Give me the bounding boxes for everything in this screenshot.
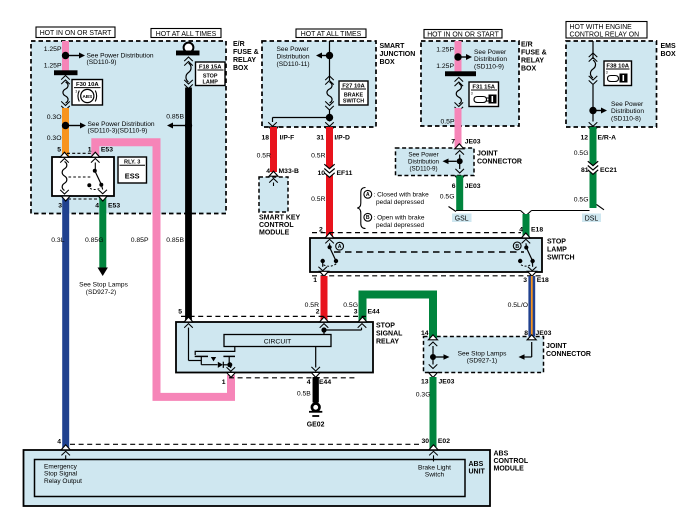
SJB internal feed line <box>329 41 331 80</box>
arrow to see power distribution (SD110-3)(SD110-9) <box>69 123 87 129</box>
svg-text:JOINT: JOINT <box>546 343 567 350</box>
connector M33-B pin 4 <box>266 168 299 176</box>
connector E53 pin 1 <box>88 147 100 158</box>
svg-text:MODULE: MODULE <box>494 466 525 473</box>
arrow left to see power distribution <box>167 123 186 129</box>
svg-text:Emergency: Emergency <box>44 463 78 470</box>
svg-text:LAMP: LAMP <box>547 247 567 254</box>
svg-text:3: 3 <box>354 309 358 316</box>
svg-text:EC21: EC21 <box>600 167 617 174</box>
svg-text:0.5G: 0.5G <box>574 197 589 204</box>
svg-text:0.5G: 0.5G <box>440 194 455 201</box>
svg-text:0.3O: 0.3O <box>47 135 62 142</box>
relay internal pin2 node <box>320 324 329 335</box>
svg-text:4: 4 <box>95 203 99 210</box>
svg-text:14: 14 <box>421 330 429 337</box>
svg-text:E53: E53 <box>101 147 113 154</box>
svg-text:JE03: JE03 <box>439 378 455 385</box>
svg-text:pedal depressed: pedal depressed <box>376 222 424 229</box>
EMS box outline <box>566 41 657 127</box>
fuse F27 symbol <box>325 76 334 110</box>
svg-text:31: 31 <box>316 134 324 141</box>
svg-text:BOX: BOX <box>380 59 396 66</box>
text see stop lamps SD927-2 <box>79 282 128 296</box>
wire 1.25P column 1 <box>62 41 69 71</box>
svg-text:1: 1 <box>313 277 317 284</box>
wire 0.5G GSL <box>456 176 463 211</box>
connector JE03 pin 14 <box>421 330 438 340</box>
junction on 0.85B <box>185 122 192 129</box>
svg-text:0.3L: 0.3L <box>51 237 64 244</box>
svg-text:0.85G: 0.85G <box>85 237 104 244</box>
arrow to see power distribution (SD110-9) col1 <box>69 53 86 59</box>
fuse F18 symbol <box>184 57 193 89</box>
wire 0.5L/O switch to joint connector <box>528 276 535 337</box>
svg-text:JE03: JE03 <box>465 183 481 190</box>
svg-text:81: 81 <box>581 167 589 174</box>
svg-text:8: 8 <box>524 330 528 337</box>
svg-text:See Power: See Power <box>474 49 507 56</box>
option tick GSL <box>449 207 457 212</box>
wire label 0.5L/O <box>508 302 528 309</box>
text see power distribution SD110-11 <box>277 46 310 68</box>
svg-text:ABS: ABS <box>494 451 509 458</box>
switch linkage dashed <box>334 251 524 253</box>
connector JE03 pin 6 <box>452 176 481 190</box>
wire 0.5G into switch pin 4 <box>523 214 530 238</box>
ABS internal arrow right <box>429 451 438 461</box>
svg-text:GE02: GE02 <box>307 421 325 428</box>
svg-text:F27 10A: F27 10A <box>342 83 365 89</box>
option tick DSL <box>597 205 605 210</box>
junction on 1.25P col4 <box>454 53 461 60</box>
circuit box <box>224 335 331 347</box>
svg-text:BOX: BOX <box>521 66 537 73</box>
svg-text:BOX: BOX <box>661 51 677 58</box>
relay internal pin4 line <box>311 347 320 372</box>
connector E53 name bottom <box>108 203 120 210</box>
connector E53 pin 4 <box>95 196 107 210</box>
wire label 0.85G <box>85 237 104 244</box>
svg-text:JE03: JE03 <box>536 330 552 337</box>
svg-text:1: 1 <box>222 379 226 386</box>
text emergency stop signal relay output <box>44 463 82 485</box>
relay internal pin2-pin3 link <box>324 324 366 330</box>
smart junction box outline <box>262 41 376 127</box>
joint connector JE03 (lower) box <box>424 337 544 373</box>
svg-text:F18 15A: F18 15A <box>199 64 222 70</box>
svg-text:F38 10A: F38 10A <box>606 63 629 69</box>
wire label 0.85B lower <box>166 237 184 244</box>
svg-text:E/R: E/R <box>521 42 533 49</box>
svg-text:E44: E44 <box>368 309 380 316</box>
label SMART KEY CONTROL MODULE <box>259 215 301 237</box>
svg-text:1.25P: 1.25P <box>44 63 62 70</box>
EMS exit arrow <box>589 122 598 126</box>
wire 0.85P from relay pin1 to stop signal relay pin1 <box>95 142 231 397</box>
net label DSL <box>582 214 601 223</box>
wire label 0.85P <box>131 237 149 244</box>
ground GE02 <box>307 404 325 429</box>
svg-text:4: 4 <box>57 438 61 445</box>
arrow to see power distribution col4 <box>461 54 472 60</box>
svg-text:BOX: BOX <box>233 65 249 72</box>
svg-text:1.25P: 1.25P <box>44 46 62 53</box>
svg-text:FUSE &: FUSE & <box>233 49 259 56</box>
switch B <box>518 239 537 270</box>
svg-text:(SD927-2): (SD927-2) <box>86 289 116 296</box>
text see power distribution col1 <box>87 52 154 66</box>
svg-text:JOINT: JOINT <box>477 151 498 158</box>
svg-text:6: 6 <box>452 183 456 190</box>
wire label 0.5G GSL <box>440 194 455 201</box>
svg-text:JE03: JE03 <box>465 139 481 146</box>
diode D1 <box>218 362 228 368</box>
svg-text:(SD110-3)(SD110-9): (SD110-3)(SD110-9) <box>88 128 148 135</box>
svg-text:LAMP: LAMP <box>203 80 219 86</box>
relay label box RLY.3 / ESS <box>118 157 147 183</box>
connector E18 dashed top <box>312 232 521 234</box>
svg-text:JUNCTION: JUNCTION <box>380 51 416 58</box>
junction SJB top <box>326 52 333 59</box>
svg-text:STOP: STOP <box>376 323 395 330</box>
header HOT WITH ENGINE CONTROL RELAY ON <box>566 22 647 39</box>
svg-text:0.5R: 0.5R <box>311 196 325 203</box>
wire label 0.85B upper <box>166 113 184 120</box>
header HOT AT ALL TIMES (SJB) <box>296 29 366 38</box>
svg-text:RLY. 3: RLY. 3 <box>124 160 140 166</box>
connector dashed line ABS <box>70 443 421 445</box>
connector E44 pin 1 <box>222 372 236 386</box>
connector E18 pin 2 <box>319 226 334 238</box>
net label GSL <box>452 214 472 223</box>
note B open with brake pedal depressed <box>364 213 425 228</box>
connector JE03 pin 8 <box>524 330 551 340</box>
svg-text:SWITCH: SWITCH <box>343 99 364 105</box>
smart key control module box <box>259 177 288 212</box>
svg-text:7: 7 <box>451 139 455 146</box>
svg-text:Stop Signal: Stop Signal <box>44 471 78 478</box>
svg-text:3: 3 <box>523 277 527 284</box>
svg-text:HOT IN ON OR START: HOT IN ON OR START <box>40 30 112 37</box>
label STOP LAMP SWITCH <box>547 239 575 262</box>
wire label 0.5G DSL lower <box>574 197 589 204</box>
relay RLY.3 ESS box <box>52 157 114 196</box>
svg-text:A: A <box>338 244 342 250</box>
wire label 0.3L <box>51 237 64 244</box>
svg-text:I/P-D: I/P-D <box>334 134 350 141</box>
wire label 0.5P <box>441 119 455 126</box>
connector E44 dashed bottom <box>229 377 355 379</box>
note A closed with brake pedal depressed <box>364 190 429 205</box>
wire label 0.5G DSL upper <box>574 150 589 157</box>
connector E02 pin 30 <box>421 438 450 450</box>
wire 0.3O column 1 <box>62 108 69 157</box>
connector ABS pin 4 <box>57 438 70 450</box>
junction on 1.25P <box>62 52 69 59</box>
svg-text:SWITCH: SWITCH <box>547 255 575 262</box>
svg-text:SMART KEY: SMART KEY <box>259 215 301 222</box>
fuse F38 10A label box <box>604 61 632 86</box>
svg-text:CIRCUIT: CIRCUIT <box>264 338 292 345</box>
svg-text:30: 30 <box>421 438 429 445</box>
svg-text:5: 5 <box>57 147 61 154</box>
svg-text:E53: E53 <box>108 203 120 210</box>
header HOT IN ON OR START (left) <box>36 27 115 38</box>
fuse F18 15A label box <box>196 62 226 86</box>
wire label 0.5R (I/P-D upper) <box>311 153 325 160</box>
relay internal pin1 line <box>227 365 236 372</box>
svg-text:HOT AT ALL TIMES: HOT AT ALL TIMES <box>156 31 217 38</box>
svg-text:2: 2 <box>316 309 320 316</box>
svg-text:0.3O: 0.3O <box>47 114 62 121</box>
svg-text:3: 3 <box>606 71 608 75</box>
EMS line below fuse <box>592 85 594 122</box>
arrow to see power distribution SD110-8 <box>596 108 607 114</box>
svg-text:1.25P: 1.25P <box>436 63 454 70</box>
svg-text:CONNECTOR: CONNECTOR <box>477 159 522 166</box>
svg-text:EF11: EF11 <box>337 170 353 177</box>
svg-text:0.85B: 0.85B <box>166 113 184 120</box>
smart key module internal arrow <box>269 179 278 187</box>
connector E53 dashed line top <box>67 152 92 154</box>
svg-text:0.5G: 0.5G <box>574 150 589 157</box>
connector E44 pin 2 <box>316 309 329 323</box>
svg-text:Distribution: Distribution <box>277 53 310 60</box>
fuse F38 symbol <box>589 60 598 85</box>
svg-text:pedal depressed: pedal depressed <box>376 199 424 206</box>
label EMS BOX <box>661 43 677 58</box>
svg-text:ABS: ABS <box>469 461 484 468</box>
svg-text:DSL: DSL <box>585 216 599 223</box>
svg-text:CONTROL: CONTROL <box>259 222 294 229</box>
svg-text:13: 13 <box>421 378 429 385</box>
stop lamp switch box <box>310 238 542 272</box>
svg-text:UNIT: UNIT <box>469 469 486 476</box>
wire label 0.5R (I/P-D lower) <box>311 196 325 203</box>
svg-text:Relay Output: Relay Output <box>44 478 82 485</box>
svg-text:: Open with brake: : Open with brake <box>374 215 425 222</box>
svg-text:See Power: See Power <box>611 101 644 108</box>
bus bar col2 <box>176 51 200 56</box>
wire label 1.25P col4 lower <box>436 63 454 70</box>
label STOP SIGNAL RELAY <box>376 323 403 346</box>
svg-text:4: 4 <box>519 226 523 233</box>
connector E44 pin 4 <box>307 372 332 386</box>
svg-text:HOT IN ON OR START: HOT IN ON OR START <box>427 32 499 39</box>
bus bar col1 <box>54 70 78 75</box>
wire 0.3G to ABS <box>430 377 437 450</box>
connector E53 dashed line bottom <box>68 198 100 200</box>
svg-text:1: 1 <box>88 147 92 154</box>
svg-text:0.5R: 0.5R <box>257 153 271 160</box>
fuse F31 15A label box <box>469 82 499 107</box>
fuse F27 10A label box <box>339 81 368 105</box>
bus bar col4 <box>445 71 476 76</box>
joint connector pin8 internal elbow <box>519 342 532 360</box>
svg-text:See Stop Lamps: See Stop Lamps <box>458 350 507 357</box>
connector E18 pin 1 <box>313 271 328 284</box>
svg-text:5: 5 <box>178 309 182 316</box>
wire label 0.5B <box>297 391 311 398</box>
svg-text:0.85P: 0.85P <box>131 237 149 244</box>
svg-text:E18: E18 <box>531 226 543 233</box>
svg-text:18: 18 <box>261 134 269 141</box>
svg-text:(SD110-8): (SD110-8) <box>611 116 641 123</box>
wire label 0.3O lower <box>47 135 62 142</box>
junction on 0.3O <box>62 122 69 129</box>
ABS unit inner box <box>35 460 466 497</box>
svg-text:See Stop Lamps: See Stop Lamps <box>79 282 128 289</box>
svg-text:E02: E02 <box>438 438 450 445</box>
wire 0.5R from I/P-D to stop lamp switch <box>326 127 333 238</box>
svg-text:RELAY: RELAY <box>233 57 256 64</box>
connector ring col2 <box>184 43 194 53</box>
joint connector upper internals <box>443 151 465 174</box>
wire label 0.5R lower <box>305 302 319 309</box>
option line GSL to pin4 <box>456 210 521 212</box>
svg-text:10: 10 <box>317 170 325 177</box>
inline connector EF11 <box>317 164 352 177</box>
connector E53 name top <box>101 147 113 154</box>
option line DSL to pin4 <box>532 210 590 212</box>
wire 0.3L column 1 to ABS <box>62 197 69 450</box>
E/R fuse & relay box (right) outline <box>421 41 519 126</box>
svg-text:SMART: SMART <box>380 43 406 50</box>
connector E44 pin 3 <box>354 309 380 323</box>
svg-text:CONNECTOR: CONNECTOR <box>546 351 591 358</box>
svg-text:SIGNAL: SIGNAL <box>376 331 403 338</box>
wire label 1.25P upper <box>44 46 62 53</box>
svg-text:B: B <box>515 244 519 250</box>
svg-text:0.5B: 0.5B <box>297 391 311 398</box>
wire 1.25P column 4 <box>455 41 462 72</box>
connector E44 dashed top <box>181 315 366 317</box>
wire label 0.5G lower <box>343 302 358 309</box>
joint connector JE03 (upper) box <box>396 148 475 176</box>
label SMART JUNCTION BOX <box>380 43 416 66</box>
relay linkage dashed <box>69 176 92 178</box>
svg-text:1.25P: 1.25P <box>436 47 454 54</box>
svg-text:E/R: E/R <box>233 41 245 48</box>
svg-text:E/R-A: E/R-A <box>598 135 617 142</box>
svg-text:0.3G: 0.3G <box>416 392 431 399</box>
svg-text:3: 3 <box>75 90 77 94</box>
header HOT AT ALL TIMES (left) <box>151 29 221 38</box>
switch A <box>318 239 338 270</box>
svg-text:FUSE &: FUSE & <box>521 50 547 57</box>
transistor Q1 <box>195 356 235 364</box>
svg-text:MODULE: MODULE <box>259 230 290 237</box>
connector JE03 pin 7 <box>451 139 481 149</box>
svg-text:CONTROL: CONTROL <box>494 458 529 465</box>
junction EMS <box>589 107 596 114</box>
wire label 1.25P lower <box>44 63 62 70</box>
connector pin 12 E/R-A <box>580 127 616 142</box>
EMS internal feed line <box>592 41 594 59</box>
svg-text:GSL: GSL <box>455 216 469 223</box>
wire 0.85G to stop lamps <box>99 197 106 269</box>
svg-text:Brake Light: Brake Light <box>418 464 451 471</box>
svg-text:3: 3 <box>58 203 62 210</box>
arrow to stop lamps SD927-2 <box>98 268 108 277</box>
svg-text:F31 15A: F31 15A <box>472 84 495 90</box>
wire 0.5R to smart key module <box>270 127 277 172</box>
wire 0.85B column 2 <box>185 88 192 322</box>
wire 0.5P below fuse <box>455 108 462 149</box>
connector pin 31 I/P-D <box>316 127 350 141</box>
svg-text:4: 4 <box>307 379 311 386</box>
connector JE03 pin 13 <box>421 373 455 386</box>
connector E53 pin 3 <box>58 196 70 210</box>
text see power distribution SD110-9 in joint connector <box>408 152 440 173</box>
svg-text:0.85B: 0.85B <box>166 237 184 244</box>
label E/R FUSE & RELAY BOX (left) <box>233 41 259 72</box>
svg-text:STOP: STOP <box>547 239 566 246</box>
fuse F31 symbol <box>455 78 464 112</box>
svg-text:CONTROL RELAY ON: CONTROL RELAY ON <box>570 31 640 38</box>
svg-text:HOT WITH ENGINE: HOT WITH ENGINE <box>570 24 633 31</box>
relay switch blade <box>87 159 107 194</box>
wire 0.5B to ground <box>313 377 319 403</box>
node transistor output <box>227 362 232 367</box>
wire 0.5R switch to relay <box>321 276 328 322</box>
stop signal relay box <box>176 322 373 373</box>
svg-text:3: 3 <box>471 92 473 96</box>
ABS internal arrow left <box>61 451 70 459</box>
connector pin 18 I/P-F <box>261 127 294 141</box>
notes brace <box>357 188 365 229</box>
E/R fuse & relay box (left) outline <box>31 41 226 214</box>
svg-text:(SD110-11): (SD110-11) <box>277 61 310 68</box>
svg-text:ESS: ESS <box>125 172 140 181</box>
header HOT IN ON OR START (right) <box>424 30 502 39</box>
svg-text:Switch: Switch <box>425 472 445 479</box>
label JOINT CONNECTOR (lower) <box>546 343 591 358</box>
relay internal pin5 feed <box>184 324 201 361</box>
svg-text:0.5R: 0.5R <box>311 153 325 160</box>
svg-text:HOT AT ALL TIMES: HOT AT ALL TIMES <box>301 31 362 38</box>
svg-text:A: A <box>366 192 370 198</box>
transistor Q1 gate feed <box>195 347 235 356</box>
fuse F30 symbol <box>61 76 70 111</box>
inline connector EC21 <box>581 161 617 174</box>
svg-text:4: 4 <box>266 168 270 175</box>
svg-text:Distribution: Distribution <box>474 56 507 63</box>
connector E18 pin 4 <box>519 226 543 238</box>
wire label 0.3O upper <box>47 114 62 121</box>
arrow left to see power distribution SD110-11 <box>316 53 327 59</box>
svg-text:: Closed with brake: : Closed with brake <box>374 192 430 199</box>
svg-text:E44: E44 <box>319 379 331 386</box>
text see power distribution SD110-8 <box>611 101 644 123</box>
label E/R FUSE & RELAY BOX (right) <box>521 42 547 73</box>
wire 0.5G DSL upper <box>590 127 597 208</box>
svg-text:EMS: EMS <box>661 43 677 50</box>
svg-text:2: 2 <box>319 226 323 233</box>
SJB internal line below fuse <box>329 110 331 122</box>
svg-text:ABS: ABS <box>82 94 92 99</box>
text see power distribution shared <box>88 121 155 135</box>
svg-text:B: B <box>366 215 370 221</box>
svg-text:(SD110-9): (SD110-9) <box>409 165 437 172</box>
EMS connector chevrons <box>589 53 598 62</box>
connector E18 pin 3 <box>523 271 549 284</box>
svg-text:12: 12 <box>580 135 588 142</box>
wire label 0.3G <box>416 392 431 399</box>
svg-text:0.5L/O: 0.5L/O <box>508 302 528 309</box>
wire 0.5G relay pin3 to joint connector pin14 <box>363 295 434 339</box>
